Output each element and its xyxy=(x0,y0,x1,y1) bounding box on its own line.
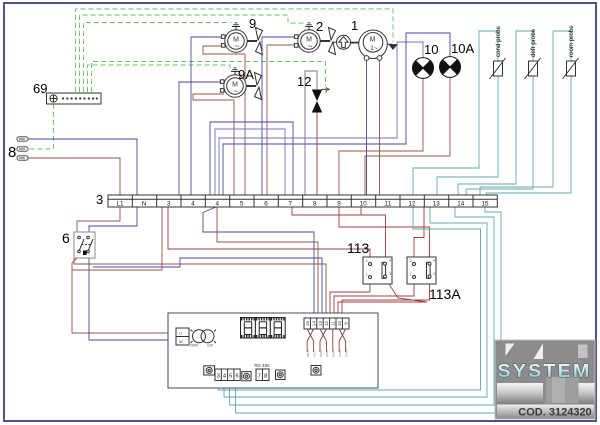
wire earth bus to valve 12 ground arrow xyxy=(92,62,326,93)
earth terminal bar 69 xyxy=(47,93,102,104)
svg-text:cond probe: cond probe xyxy=(495,25,502,57)
svg-text:13: 13 xyxy=(318,321,323,327)
svg-text:6: 6 xyxy=(264,201,268,208)
wire red relay 113A pin 3 to board xyxy=(342,284,430,317)
svg-text:14: 14 xyxy=(311,321,316,327)
svg-text:10: 10 xyxy=(424,42,438,57)
svg-text:FAN1: FAN1 xyxy=(325,349,329,357)
svg-text:12: 12 xyxy=(408,201,416,208)
svg-text:4: 4 xyxy=(389,259,391,263)
svg-text:1: 1 xyxy=(410,273,412,277)
board probe connector 3456 xyxy=(215,369,240,381)
wire teal strip 14 to board connector 5 xyxy=(230,207,495,405)
svg-text:5: 5 xyxy=(229,374,232,380)
wire teal cond probe left to strip 12 xyxy=(413,31,498,195)
wire brown motor 9A to strip 5 xyxy=(193,94,234,195)
board round connector B xyxy=(242,372,251,381)
motor M 9 xyxy=(221,23,262,55)
wire red relay 113 pin 1 to board xyxy=(330,284,370,317)
svg-text:11: 11 xyxy=(331,321,336,326)
board output labels xyxy=(306,348,348,357)
svg-text:3: 3 xyxy=(389,272,391,276)
wire navy lamp 10A top feed xyxy=(223,33,450,195)
wire brown switch 6 to board power connector xyxy=(72,256,176,333)
wire brown lamp 10A bottom to strip 10 xyxy=(365,77,450,195)
wire earth from 69 to terminal block 8 xyxy=(28,104,54,149)
wire brown motor 9 to strip 5 xyxy=(203,46,245,195)
svg-text:1~: 1~ xyxy=(370,45,378,52)
svg-text:113: 113 xyxy=(347,240,370,256)
svg-text:MOD: MOD xyxy=(306,349,310,357)
svg-text:3: 3 xyxy=(167,201,171,208)
svg-text:8: 8 xyxy=(8,144,16,161)
wire red strip 12 to relay 113A pin 2 xyxy=(414,207,424,257)
wire teal defr probe right to strip 14 xyxy=(466,76,533,195)
wire teal strip 12 to board connector 3 xyxy=(218,207,481,390)
wire brown strip 4 to board connector xyxy=(217,207,318,317)
flow switch U1 xyxy=(333,35,359,49)
svg-text:12: 12 xyxy=(324,321,329,327)
wire brown switch 6 feed to board relay connector xyxy=(74,258,326,317)
svg-text:9: 9 xyxy=(249,16,256,31)
wire red strip 10 stub to jumper xyxy=(360,207,362,216)
wire red strip 7 to relay 113 pin 4 xyxy=(292,207,386,257)
wire violet valve 12 top to strip 8 xyxy=(305,71,317,195)
svg-text:2: 2 xyxy=(316,19,323,34)
wire blue motor 1 to strip 10 xyxy=(366,59,368,195)
motor M 9A xyxy=(220,68,261,100)
board output wires with crossings xyxy=(307,329,345,352)
wire navy strip 4 to board connector xyxy=(203,207,314,317)
svg-text:COD. 3124320: COD. 3124320 xyxy=(518,407,591,419)
svg-text:6: 6 xyxy=(62,230,70,246)
motor M 2 xyxy=(294,23,335,55)
wire teal room probe top loop xyxy=(553,31,571,61)
wire teal defr probe left to strip 14 xyxy=(458,31,533,195)
svg-text:~: ~ xyxy=(235,41,240,51)
svg-text:9: 9 xyxy=(343,322,348,325)
svg-text:14: 14 xyxy=(457,201,465,208)
display digit 3 xyxy=(270,318,285,339)
svg-text:1: 1 xyxy=(366,273,368,277)
wire dark-red valve 12 bottom to strip 8 xyxy=(316,112,318,195)
wire blue strip N to switch 6 xyxy=(89,207,137,234)
motor M 1 xyxy=(359,30,397,60)
wire blue motor 9 to strip 4 xyxy=(191,37,224,195)
wire teal cond probe right to strip 13 xyxy=(437,76,498,195)
wire earth bus to motor 9A ground xyxy=(88,65,231,92)
switch 6 xyxy=(74,232,95,258)
wire navy band jumper strip 4 to strip 7 xyxy=(210,122,293,195)
wire earth bus from 69 to motor 1 ground xyxy=(76,9,394,92)
svg-text:DEF2: DEF2 xyxy=(332,349,336,357)
svg-text:15: 15 xyxy=(481,201,489,208)
wire teal strip 15 to board connector 6 xyxy=(236,207,502,413)
svg-text:DEF1: DEF1 xyxy=(319,349,323,357)
svg-text:9: 9 xyxy=(337,201,341,208)
display digit 2 xyxy=(255,318,270,339)
svg-text:FAN2: FAN2 xyxy=(338,349,342,357)
wire brown strip L1 to switch 6 xyxy=(77,207,120,234)
lamp 10A xyxy=(440,57,461,78)
svg-text:SYSTEM: SYSTEM xyxy=(498,361,592,381)
wire teal strip 13 to board connector 4 xyxy=(224,207,487,397)
logo 4 SYSTEM panel xyxy=(495,340,595,419)
wire brown from 8 to strip L1 xyxy=(28,158,120,195)
control board U2 xyxy=(168,313,378,388)
svg-text:5: 5 xyxy=(240,201,244,208)
svg-text:15: 15 xyxy=(305,321,310,327)
solenoid valve 12 xyxy=(312,87,330,113)
board round connector A xyxy=(204,366,215,375)
wire earth bus to motor 9 ground xyxy=(84,23,232,93)
svg-text:RS 485: RS 485 xyxy=(254,363,270,368)
relay 113 xyxy=(363,257,392,284)
svg-text:10: 10 xyxy=(360,201,368,208)
wire blue motor 2 to strip 6 xyxy=(262,37,298,195)
wire brown lamp 10 bottom to strip 9 xyxy=(339,78,423,195)
svg-text:10: 10 xyxy=(337,321,342,327)
thermistor room probe xyxy=(563,58,579,79)
svg-text:6: 6 xyxy=(235,374,238,380)
board serial connector 78 xyxy=(256,369,269,381)
board power connector xyxy=(176,328,189,345)
thermistor defr probe xyxy=(525,58,541,79)
wire teal room probe right to strip 15 xyxy=(487,76,572,195)
relay 113A xyxy=(407,257,436,284)
wire blue from 8 to strip N xyxy=(28,139,137,195)
wire earth bus to motor 2 ground xyxy=(80,15,307,92)
svg-text:room probe: room probe xyxy=(568,25,575,57)
svg-text:1: 1 xyxy=(351,18,358,33)
wire red strip 9 to relay 113A pin 4 xyxy=(339,207,430,257)
svg-text:L1: L1 xyxy=(179,332,183,336)
wire violet band jumper strip 4 to strip 7 xyxy=(215,129,285,195)
terminal lugs 8 xyxy=(17,137,28,160)
svg-text:3: 3 xyxy=(217,374,220,380)
wire blue switch 6 to board power connector xyxy=(89,256,176,340)
svg-text:~: ~ xyxy=(234,86,239,96)
lamp 10 xyxy=(413,58,434,79)
svg-text:7: 7 xyxy=(258,374,261,380)
svg-text:12: 12 xyxy=(297,74,311,89)
svg-text:2: 2 xyxy=(366,259,368,263)
board output connector 15-9 xyxy=(304,318,349,329)
wire brown motor 2 to strip 6 xyxy=(267,45,298,195)
wire brown strip 3 to switch feed xyxy=(72,207,162,270)
svg-text:3: 3 xyxy=(433,272,435,276)
svg-text:10A: 10A xyxy=(451,41,474,56)
svg-text:230V: 230V xyxy=(190,344,199,348)
svg-text:13: 13 xyxy=(433,201,441,208)
wire red strip 3 to relay 113 pin 2 xyxy=(168,207,370,257)
svg-text:9A: 9A xyxy=(238,67,254,82)
board round connector D xyxy=(311,366,321,376)
svg-text:AUX: AUX xyxy=(312,351,316,357)
board round connector C xyxy=(276,370,286,380)
svg-text:8: 8 xyxy=(264,374,267,380)
svg-text:COMP: COMP xyxy=(344,348,348,357)
svg-text:N: N xyxy=(142,201,147,208)
wire brown motor 1 to strip 11 xyxy=(379,59,381,195)
wire violet lamp 10 top feed xyxy=(219,42,423,195)
svg-text:113A: 113A xyxy=(429,286,461,302)
svg-text:2: 2 xyxy=(410,259,412,263)
svg-text:69: 69 xyxy=(33,81,47,96)
display digit 1 xyxy=(241,318,256,339)
svg-text:N2: N2 xyxy=(179,340,183,344)
strip terminal labels xyxy=(116,201,489,208)
wire blue switch 6 feed to board relay connector xyxy=(93,258,322,317)
wire blue motor 9A to strip 3 xyxy=(179,82,222,195)
svg-text:7: 7 xyxy=(289,201,293,208)
svg-text:3: 3 xyxy=(96,192,103,207)
terminal strip 3 xyxy=(108,195,497,207)
transformer T1 xyxy=(190,330,216,348)
wire teal room probe left to board right edge xyxy=(480,31,553,195)
svg-text:4: 4 xyxy=(191,201,195,208)
svg-text:defr probe: defr probe xyxy=(530,28,537,57)
svg-text:11: 11 xyxy=(384,201,391,208)
thermistor cond probe xyxy=(490,58,506,79)
svg-text:~: ~ xyxy=(308,41,313,51)
svg-text:4: 4 xyxy=(216,201,220,208)
svg-text:L1: L1 xyxy=(116,201,124,208)
wire red relay 113 pin 3 to board xyxy=(338,279,427,318)
svg-text:M: M xyxy=(370,37,376,44)
wire red relay 113A pin 1 to board xyxy=(334,284,414,317)
svg-text:12V: 12V xyxy=(207,344,214,348)
svg-text:4: 4 xyxy=(433,259,435,263)
svg-text:8: 8 xyxy=(313,201,317,208)
